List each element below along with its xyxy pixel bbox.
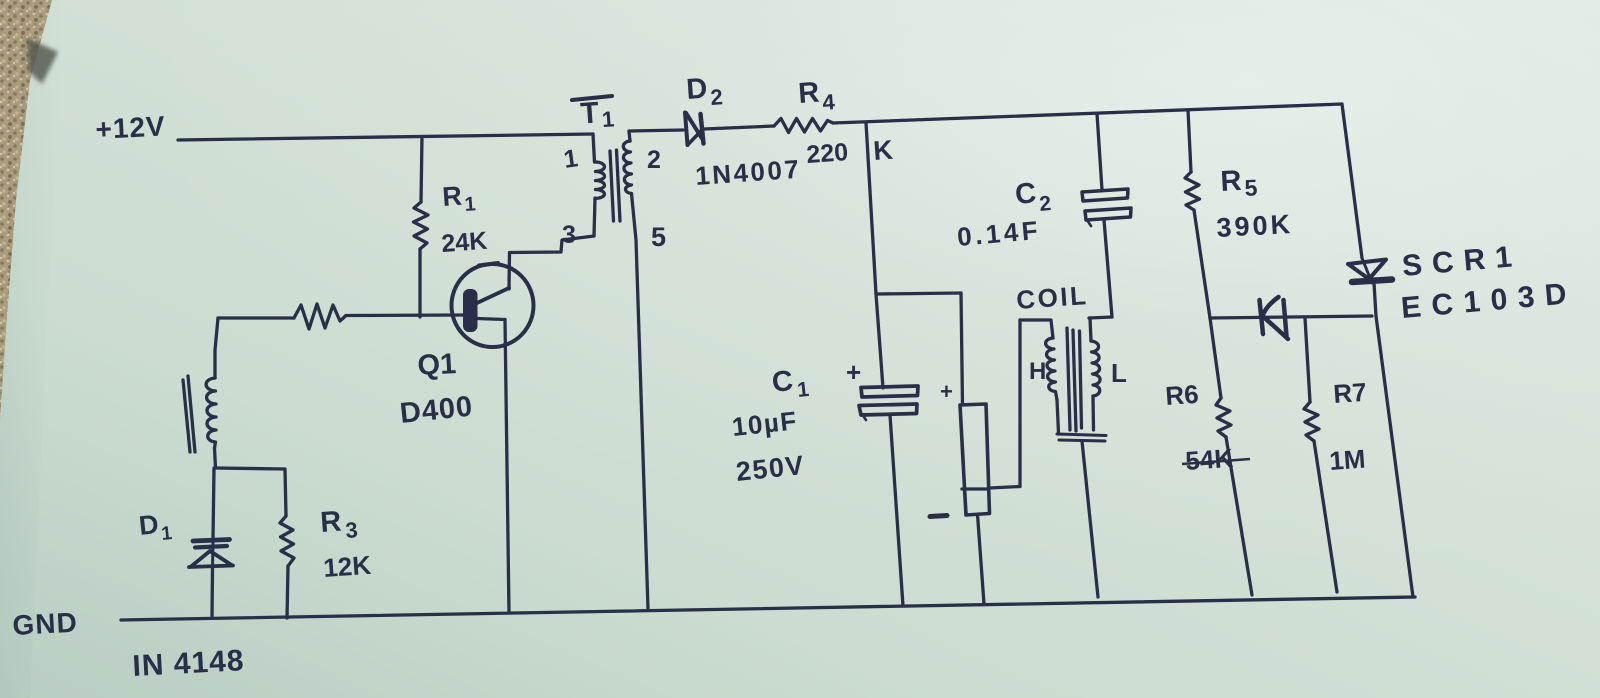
ignition coil top link (1020, 320, 1053, 338)
svg-text:C: C (770, 365, 794, 399)
transformer T1 primary bottom lead (pin 3) (594, 198, 595, 236)
coil L bottom lead (1091, 396, 1095, 430)
svg-text:54K: 54K (1184, 443, 1234, 476)
transistor Q1 emitter stroke (477, 319, 505, 320)
svg-text:12K: 12K (322, 550, 372, 583)
svg-text:R: R (319, 506, 342, 539)
diode D1 (193, 540, 230, 542)
svg-text:D: D (137, 509, 160, 541)
wire T1 pin3 to Q1 collector (509, 236, 594, 289)
pickup coil core (188, 376, 195, 452)
resistor R1 top lead (421, 137, 422, 203)
svg-text:+: + (846, 357, 861, 387)
wire vertical drop at 220K node (866, 123, 876, 295)
resistor R1 bottom lead (418, 249, 421, 317)
resistor R6 bottom lead (1226, 437, 1252, 595)
transistor Q1 circle (452, 264, 534, 347)
capacitor C2 top lead (1097, 114, 1102, 191)
svg-text:+12V: +12V (95, 110, 167, 145)
trigger box bottom lead (978, 515, 985, 605)
wire SCR anode drop (1342, 104, 1362, 258)
svg-text:D: D (685, 73, 708, 106)
resistor R7 (1304, 402, 1319, 441)
wire Q1 base from left node (218, 316, 294, 319)
wire SCR gate line (1210, 316, 1372, 318)
trigger box (pickup) (960, 404, 990, 515)
svg-text:C: C (1014, 177, 1038, 211)
coil H winding (1046, 338, 1057, 400)
svg-text:COIL: COIL (1015, 280, 1089, 315)
capacitor C1 plates (861, 386, 918, 397)
wire left node down to pickup coil (215, 318, 218, 378)
svg-text:R: R (797, 77, 820, 110)
diode D2 (685, 113, 688, 146)
coil H bottom lead (1057, 400, 1059, 433)
diode D1 bottom lead (210, 569, 214, 618)
coil core (1067, 328, 1070, 430)
svg-text:R: R (1220, 165, 1243, 198)
svg-text:Q1: Q1 (417, 348, 457, 382)
wire box to coil left (990, 487, 1021, 489)
woven mat visible at top-left corner (0, 0, 52, 420)
label T1 (579, 95, 615, 133)
wire SCR cathode to ground rail (1374, 283, 1413, 597)
svg-text:IN 4148: IN 4148 (132, 644, 246, 683)
capacitor C2 plates (1082, 189, 1128, 201)
resistor R7 top lead (1305, 318, 1310, 402)
svg-text:R7: R7 (1332, 377, 1367, 409)
svg-text:R6: R6 (1164, 379, 1199, 411)
wire pickup coil to D1 node (215, 448, 216, 468)
wire D2 to R4 (704, 126, 774, 129)
coil bottom plate (1057, 434, 1106, 436)
node +12V rail (top left) (178, 134, 593, 140)
diode D1 top lead (213, 468, 214, 540)
svg-text:K: K (872, 135, 894, 166)
svg-text:3: 3 (562, 221, 576, 249)
svg-text:2: 2 (1038, 192, 1052, 216)
svg-text:5: 5 (651, 222, 666, 252)
resistor R7 bottom lead (1314, 441, 1337, 592)
resistor R3 (280, 516, 294, 566)
svg-text:H: H (1029, 358, 1046, 385)
ground rail (121, 597, 1415, 620)
resistor R5 bottom lead (1194, 210, 1210, 318)
resistor R6 top lead (1210, 318, 1221, 398)
svg-text:5: 5 (1244, 174, 1258, 201)
coil L top lead (1090, 318, 1091, 341)
resistor R5 top lead (1188, 110, 1191, 172)
resistor R2 (base) (294, 304, 346, 329)
capacitor C2 bottom lead (1104, 220, 1112, 317)
pickup coil winding (206, 378, 216, 448)
dark shadow notch on mat (27, 38, 58, 84)
wire junction horizontal to trigger box (876, 293, 961, 294)
svg-text:220: 220 (805, 138, 849, 169)
diode D3 (gate diode) (1260, 300, 1264, 334)
resistor R4 (774, 119, 833, 133)
transistor Q1 base bar (464, 290, 477, 331)
svg-text:390K: 390K (1216, 209, 1294, 243)
svg-text:R: R (441, 181, 463, 212)
wire Q1 emitter to ground rail (505, 320, 509, 614)
transformer T1 secondary bottom lead pin 5 wire to ground rail (632, 194, 649, 610)
svg-text:2: 2 (710, 84, 724, 110)
transistor Q1 collector stroke (477, 288, 509, 303)
svg-text:+: + (940, 379, 953, 404)
svg-text:1: 1 (601, 106, 615, 132)
transformer T1 secondary winding (623, 141, 631, 194)
resistor R5 (1185, 172, 1200, 210)
svg-text:T: T (579, 96, 600, 130)
wire vertical into trigger box top (961, 293, 963, 405)
paper edge shading (0, 0, 62, 698)
svg-text:GND: GND (12, 607, 79, 641)
svg-text:24K: 24K (440, 227, 488, 258)
svg-text:2: 2 (647, 146, 661, 174)
ignition coil left vertical wire (1018, 320, 1021, 486)
SCR SCR1 (1348, 260, 1386, 280)
trigger box minus sign (930, 516, 947, 517)
capacitor C1 bottom lead (890, 415, 903, 606)
svg-text:1: 1 (464, 193, 477, 216)
wire C2 to coil L (1089, 317, 1112, 318)
transformer T1 secondary top lead (pin 2) (629, 132, 630, 142)
node top rail right section (833, 104, 1342, 123)
transformer T1 primary winding (595, 162, 605, 199)
resistor R3 bottom lead (287, 566, 288, 618)
capacitor C1 top lead (876, 294, 883, 388)
wire node to R3 branch (216, 468, 286, 516)
svg-text:3: 3 (345, 517, 359, 543)
coil L winding (1091, 341, 1100, 396)
svg-text:L: L (1111, 358, 1127, 388)
transformer T1 primary top lead (593, 134, 595, 162)
wire coil bottom to ground rail (1082, 441, 1098, 597)
wire rail from T1 pin2 to diode D2 (629, 130, 683, 131)
svg-text:1M: 1M (1328, 444, 1366, 476)
wire R2 to Q1 base (346, 313, 464, 317)
resistor R6 (1216, 398, 1231, 437)
resistor R1 (414, 202, 429, 249)
transformer T1 core (610, 151, 614, 221)
